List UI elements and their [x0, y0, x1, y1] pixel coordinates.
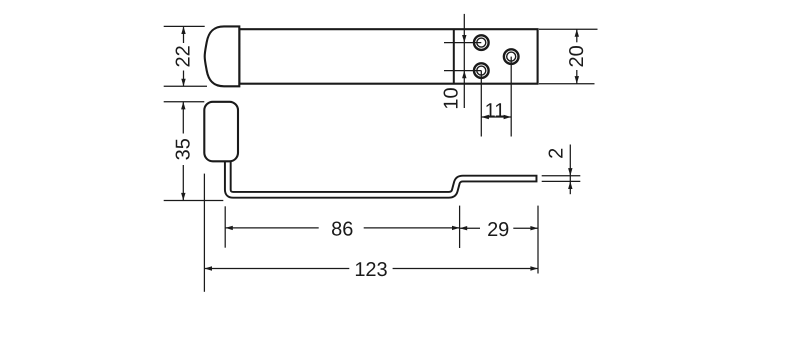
arrow 2 down (above) — [568, 168, 572, 176]
ext line 123 left — [203, 174, 205, 292]
arrow 20 down — [575, 76, 579, 84]
ext line 86 left — [224, 206, 226, 247]
svg-text:2: 2 — [545, 148, 567, 159]
arrow 86 right — [452, 226, 460, 230]
arrow 123 left — [204, 266, 212, 270]
side view bracket strip inner white — [228, 161, 536, 195]
arrow 10 up (below) — [462, 71, 466, 79]
arrow 86 left — [225, 226, 233, 230]
svg-text:11: 11 — [485, 100, 506, 122]
arrow 29 left — [460, 226, 468, 230]
ext line 22 bottom — [164, 85, 207, 87]
arrow 22 down — [181, 79, 185, 87]
ext line 2 top — [542, 175, 581, 177]
dim line 29 — [460, 227, 480, 229]
ext line 86-29 boundary — [459, 206, 461, 248]
dim line 20 — [576, 29, 578, 42]
top view body — [239, 29, 537, 83]
arrow 35 down — [181, 193, 185, 201]
ext line 11 left — [480, 71, 482, 137]
dim line 11 — [481, 116, 511, 118]
hole H2 inner — [477, 66, 486, 75]
ext line 11 right — [510, 57, 512, 137]
top view bend line — [453, 29, 455, 83]
ext line 10 lower — [444, 70, 481, 72]
arrow 11 left — [481, 115, 489, 119]
arrow 10 down (above) — [462, 35, 466, 43]
hole H3 outer — [504, 49, 519, 64]
svg-text:22: 22 — [173, 45, 195, 67]
arrow 2 up (below) — [568, 181, 572, 189]
svg-text:86: 86 — [331, 219, 353, 241]
dim line 10 — [463, 14, 465, 108]
ext line 35 bottom — [164, 200, 224, 202]
hole H2 outer — [474, 63, 489, 78]
svg-text:35: 35 — [172, 138, 194, 160]
arrow 35 up — [181, 102, 185, 110]
arrow 123 right — [530, 266, 538, 270]
arrow 20 up — [575, 29, 579, 37]
hole H3 inner — [507, 52, 516, 61]
ext line 20 top — [539, 28, 598, 30]
top view end cap (rubber foot, plan) — [205, 26, 240, 86]
ext line 10 upper — [444, 42, 481, 44]
ext line 2 bottom — [542, 180, 581, 182]
dim line 86 — [225, 227, 319, 229]
ext line 123-29 right — [537, 206, 539, 274]
svg-text:123: 123 — [354, 259, 387, 281]
svg-text:20: 20 — [566, 45, 588, 67]
arrow 11 right — [504, 115, 512, 119]
dim line 22 — [183, 26, 185, 43]
arrow 22 up — [181, 26, 185, 34]
svg-text:10: 10 — [440, 87, 462, 109]
arrow 29 right — [530, 226, 538, 230]
dim line 2 — [569, 145, 571, 195]
hole H1 inner — [477, 38, 486, 47]
ext line 20 bottom — [539, 83, 595, 85]
svg-text:29: 29 — [487, 219, 509, 241]
dim line 123 — [204, 268, 349, 270]
ext line 35 top — [164, 101, 205, 103]
hole H1 outer — [474, 35, 489, 50]
side view rubber foot — [204, 102, 238, 162]
dim line 35 — [182, 102, 184, 134]
ext line 22 top — [164, 25, 205, 27]
side view bracket strip outer — [228, 161, 538, 195]
